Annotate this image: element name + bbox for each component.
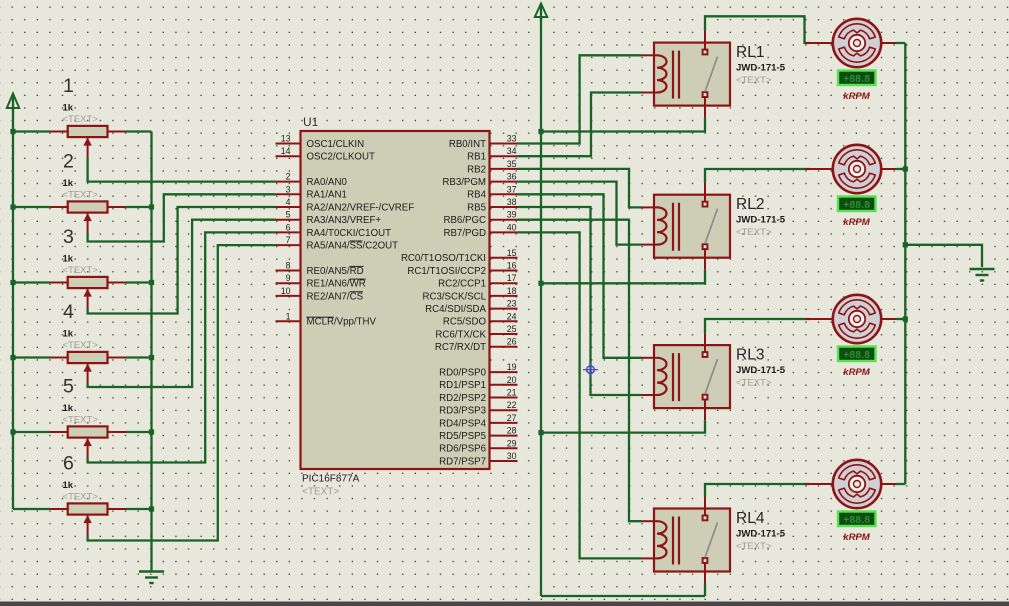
pin 17 stub [490, 282, 518, 284]
junction left rail pot 5 [10, 429, 15, 434]
pin 29 stub [490, 447, 518, 449]
svg-text:RD1/PSP1: RD1/PSP1 [439, 380, 486, 391]
ground (motor section) [970, 269, 995, 281]
junction left rail pot 4 [10, 355, 15, 360]
svg-text:RB1: RB1 [467, 152, 486, 163]
svg-text:39: 39 [507, 210, 517, 220]
wire motor 1 to rail [896, 42, 906, 44]
pin 33 stub [490, 143, 518, 145]
ground (left section) [139, 572, 164, 584]
wire pot 1 wiper to RA0 [88, 158, 276, 182]
svg-text:27: 27 [507, 413, 517, 423]
pin 20 stub [490, 384, 518, 386]
pot 5 left lead [50, 431, 69, 433]
display tachometer 2 [838, 197, 876, 212]
svg-text:36: 36 [507, 172, 517, 182]
svg-text:17: 17 [507, 273, 517, 283]
junction right rail pot 2 [149, 204, 154, 209]
svg-text:5: 5 [63, 376, 74, 398]
svg-text:9: 9 [286, 273, 291, 283]
relay RL1 switch top pin [704, 31, 706, 50]
pot 6 left lead [50, 508, 69, 510]
pin 9 stub [276, 282, 301, 284]
potentiometer 2 wiper arrow [83, 213, 91, 233]
svg-text:8: 8 [286, 261, 291, 271]
relay RL1 coil [642, 55, 667, 92]
wire RB4 to RL3 coil [518, 194, 642, 357]
svg-text:RA0/AN0: RA0/AN0 [307, 177, 348, 188]
svg-text:RB5: RB5 [467, 202, 486, 213]
svg-text:+88.8: +88.8 [843, 74, 870, 85]
pin 28 stub [490, 435, 518, 437]
wire RL2 switch bottom to rail [541, 270, 705, 284]
wire RB3 to RL2 coil [518, 182, 642, 245]
pin 25 stub [490, 333, 518, 335]
svg-text:1: 1 [63, 75, 74, 97]
pin 24 stub [490, 320, 518, 322]
wire pot 5 right lead to rail [126, 431, 152, 433]
svg-text:28: 28 [507, 426, 517, 436]
svg-text:40: 40 [507, 222, 517, 232]
svg-text:6: 6 [286, 222, 291, 232]
svg-text:<TEXT>: <TEXT> [63, 190, 99, 201]
pin 1 stub [276, 320, 301, 322]
svg-text:RC2/CCP1: RC2/CCP1 [438, 279, 486, 290]
svg-text:13: 13 [281, 134, 291, 144]
svg-text:3: 3 [286, 184, 291, 194]
svg-text:7: 7 [286, 235, 291, 245]
svg-text:1k: 1k [63, 480, 74, 491]
svg-text:JWD-171-5: JWD-171-5 [736, 215, 786, 226]
svg-text:1k: 1k [63, 103, 74, 114]
svg-text:<TEXT>: <TEXT> [736, 75, 772, 86]
motor M1 leads [805, 42, 896, 44]
potentiometer 2 body [68, 201, 108, 212]
svg-text:21: 21 [507, 388, 517, 398]
svg-text:RE1/AN6/WR: RE1/AN6/WR [307, 279, 366, 290]
svg-text:37: 37 [507, 184, 517, 194]
svg-text:<TEXT>: <TEXT> [302, 487, 339, 498]
pin 5 stub [276, 219, 301, 221]
junction rail RL2 return [538, 281, 543, 286]
pin 19 stub [490, 371, 518, 373]
relay RL2 lever [705, 209, 718, 244]
svg-text:OSC2/CLKOUT: OSC2/CLKOUT [307, 152, 375, 163]
pin 7 stub [276, 244, 301, 246]
junction right rail pot 5 [149, 429, 154, 434]
junction left rail pot 3 [10, 280, 15, 285]
wire right motor rail [904, 43, 906, 484]
svg-text:RD3/PSP3: RD3/PSP3 [439, 406, 486, 417]
svg-text:MCLR/Vpp/THV: MCLR/Vpp/THV [307, 317, 377, 328]
wire RL3 to motor 3 [705, 319, 810, 333]
relay RL2 coil [642, 207, 667, 244]
svg-text:2: 2 [63, 151, 74, 173]
pin 18 stub [490, 295, 518, 297]
wire RB7 to RL4 coil [518, 232, 642, 558]
svg-text:RB7/PGD: RB7/PGD [443, 228, 486, 239]
svg-text:22: 22 [507, 400, 517, 410]
svg-text:RC4/SDI/SDA: RC4/SDI/SDA [425, 304, 486, 315]
svg-text:10: 10 [281, 286, 291, 296]
junction rail RL3 return [538, 430, 543, 435]
relay RL1 body [654, 43, 730, 106]
svg-text:14: 14 [281, 146, 291, 156]
junction right rail pot 3 [149, 280, 154, 285]
svg-text:JWD-171-5: JWD-171-5 [736, 528, 786, 539]
svg-text:RC6/TX/CK: RC6/TX/CK [435, 329, 486, 340]
motor M2 leads [805, 168, 896, 170]
potentiometer 1 wiper arrow [83, 138, 91, 158]
svg-text:JWD-171-5: JWD-171-5 [736, 62, 786, 73]
pin 40 stub [490, 231, 518, 233]
svg-text:+88.8: +88.8 [843, 515, 870, 526]
wire pot 6 left lead (green) [13, 508, 50, 510]
svg-text:RE2/AN7/CS: RE2/AN7/CS [307, 291, 364, 302]
wire RB2 to RL2 coil [518, 169, 642, 208]
svg-text:3: 3 [63, 226, 74, 248]
junction right rail pot 4 [149, 355, 154, 360]
potentiometer 5 body [68, 426, 108, 437]
relay RL2 switch top pin [704, 183, 706, 202]
relay RL3 switch top pin [704, 333, 706, 352]
svg-text:RC7/RX/DT: RC7/RX/DT [435, 342, 486, 353]
pin 26 stub [490, 346, 518, 348]
wire pot 2 left lead (green) [13, 206, 50, 208]
svg-text:RC1/T1OSI/CCP2: RC1/T1OSI/CCP2 [407, 266, 486, 277]
svg-text:RA2/AN2/VREF-/CVREF: RA2/AN2/VREF-/CVREF [307, 202, 415, 213]
potentiometer 4 wiper arrow [83, 364, 91, 384]
pin 15 stub [490, 257, 518, 259]
svg-text:<TEXT>: <TEXT> [63, 340, 99, 351]
relay RL3 contacts [703, 352, 708, 399]
junction motor rail ground tap [903, 242, 908, 247]
relay RL4 lever [705, 523, 718, 558]
svg-text:RC5/SDO: RC5/SDO [443, 317, 487, 328]
op-amp U1 PIC16F877A chip body [301, 131, 490, 469]
svg-text:15: 15 [507, 248, 517, 258]
svg-text:RL3: RL3 [736, 347, 764, 364]
motor M4 leads [805, 483, 896, 485]
wire RL4 to motor 4 [705, 484, 810, 497]
svg-text:2: 2 [286, 172, 291, 182]
pin 22 stub [490, 409, 518, 411]
relay RL3 core [673, 353, 679, 401]
relay RL2 switch bottom pin [704, 249, 706, 270]
wire RB6 to RL4 coil [518, 220, 642, 522]
pin 23 stub [490, 308, 518, 310]
motor M2 body [833, 145, 881, 193]
motor M1 body [833, 19, 881, 67]
wire pot 2 wiper to RA1 [88, 194, 276, 241]
potentiometer 5 wiper arrow [83, 438, 91, 458]
svg-text:<TEXT>: <TEXT> [63, 114, 99, 125]
relay RL4 body [654, 509, 730, 572]
svg-text:19: 19 [507, 362, 517, 372]
svg-text:RD2/PSP2: RD2/PSP2 [439, 393, 486, 404]
wire RL1 switch bottom to rail [541, 118, 705, 132]
relay RL1 core [673, 51, 679, 99]
svg-text:RD4/PSP4: RD4/PSP4 [439, 418, 486, 429]
motor M3 leads [805, 318, 896, 320]
wire left VCC rail [12, 108, 14, 509]
wire pot 1 left lead (green) [13, 130, 50, 132]
potentiometer 3 body [68, 277, 108, 288]
junction motor rail m2 [903, 166, 908, 171]
svg-text:38: 38 [507, 197, 517, 207]
pin 38 stub [490, 206, 518, 208]
relay RL1 switch bottom pin [704, 97, 706, 118]
svg-text:RB2: RB2 [467, 164, 486, 175]
pin 14 stub [276, 155, 301, 157]
bottom bar [0, 602, 1009, 606]
svg-text:<TEXT>: <TEXT> [736, 378, 772, 389]
origin marker (blue crosshair) [583, 362, 598, 377]
svg-text:RB0/INT: RB0/INT [449, 139, 486, 150]
svg-text:20: 20 [507, 375, 517, 385]
svg-text:16: 16 [507, 261, 517, 271]
svg-text:23: 23 [507, 299, 517, 309]
svg-text:<TEXT>: <TEXT> [63, 415, 99, 426]
svg-text:PIC16F877A: PIC16F877A [302, 474, 360, 485]
relay RL1 lever [705, 57, 718, 92]
wire pot 3 wiper to RA2 [88, 207, 276, 314]
svg-text:+88.8: +88.8 [843, 200, 870, 211]
svg-text:RB4: RB4 [467, 190, 486, 201]
power symbol VCC left [7, 94, 19, 113]
pin 35 stub [490, 168, 518, 170]
pin 36 stub [490, 181, 518, 183]
wire pot 4 wiper to RA3 [88, 220, 276, 387]
potentiometer 6 body [68, 503, 108, 514]
pin 16 stub [490, 270, 518, 272]
pin 2 stub [276, 181, 301, 183]
svg-text:RL4: RL4 [736, 510, 765, 527]
pin 4 stub [276, 206, 301, 208]
relay RL4 switch top pin [704, 497, 706, 516]
svg-text:<TEXT>: <TEXT> [736, 227, 772, 238]
pin 21 stub [490, 397, 518, 399]
wire pot 6 wiper to RA5 [88, 245, 276, 540]
svg-text:JWD-171-5: JWD-171-5 [736, 365, 786, 376]
wire motor 3 to rail [896, 318, 906, 320]
relay RL4 switch bottom pin [704, 563, 706, 584]
svg-text:6: 6 [63, 453, 74, 475]
pin 27 stub [490, 422, 518, 424]
wire RL4 switch return bottom [541, 595, 705, 597]
wire motor 4 to rail [896, 483, 906, 485]
svg-text:kRPM: kRPM [843, 532, 870, 543]
wire RB0 to RL1 coil [518, 55, 642, 143]
junction left rail pot 2 [10, 204, 15, 209]
svg-text:26: 26 [507, 337, 517, 347]
svg-text:U1: U1 [303, 115, 319, 129]
power symbol VCC middle [535, 4, 547, 22]
pot 2 left lead [50, 206, 69, 208]
pin 34 stub [490, 155, 518, 157]
svg-text:+88.8: +88.8 [843, 350, 870, 361]
pin 6 stub [276, 231, 301, 233]
wire RL4 switch bottom to rail [704, 584, 706, 597]
svg-text:RD0/PSP0: RD0/PSP0 [439, 368, 486, 379]
wire pot 3 left lead (green) [13, 281, 50, 283]
svg-text:1k: 1k [63, 178, 74, 189]
potentiometer 6 wiper arrow [83, 515, 91, 535]
wire motor rail to ground [905, 245, 982, 267]
display tachometer 4 [838, 512, 876, 527]
svg-text:1k: 1k [63, 329, 74, 340]
wire RB1 to RL1 coil [518, 93, 642, 157]
svg-text:30: 30 [507, 451, 517, 461]
wire pot 5 left lead (green) [13, 431, 50, 433]
pot 1 right lead [107, 131, 127, 133]
pot 2 right lead [107, 206, 127, 208]
pin 30 stub [490, 460, 518, 462]
relay RL3 lever [705, 359, 718, 394]
junction motor rail m3 [903, 316, 908, 321]
svg-text:<TEXT>: <TEXT> [63, 265, 99, 276]
potentiometer 1 body [68, 126, 108, 137]
relay RL3 coil [642, 358, 667, 395]
svg-text:RC3/SCK/SCL: RC3/SCK/SCL [422, 291, 486, 302]
wire pot 4 left lead (green) [13, 356, 50, 358]
svg-text:5: 5 [286, 210, 291, 220]
svg-text:RB3/PGM: RB3/PGM [442, 177, 486, 188]
pot 3 right lead [107, 282, 127, 284]
pin 10 stub [276, 295, 301, 297]
pin 37 stub [490, 193, 518, 195]
svg-text:RA4/T0CKI/C1OUT: RA4/T0CKI/C1OUT [307, 228, 392, 239]
wire pot 5 wiper to RA4 [88, 232, 276, 462]
wire RL3 switch bottom to rail [541, 420, 705, 433]
pot 6 right lead [107, 508, 127, 510]
wire pot 4 right lead to rail [126, 356, 152, 358]
junction rail RL1 return [538, 129, 543, 134]
potentiometer 4 body [68, 352, 108, 363]
relay RL3 switch bottom pin [704, 400, 706, 421]
svg-text:24: 24 [507, 311, 517, 321]
motor M4 body [833, 460, 881, 508]
svg-text:kRPM: kRPM [843, 367, 870, 378]
svg-text:RC0/T1OSO/T1CKI: RC0/T1OSO/T1CKI [401, 253, 486, 264]
svg-text:34: 34 [507, 146, 517, 156]
pin 3 stub [276, 193, 301, 195]
svg-text:RA1/AN1: RA1/AN1 [307, 190, 347, 201]
wire pot 1 right lead to rail [126, 130, 152, 132]
svg-text:OSC1/CLKIN: OSC1/CLKIN [307, 139, 365, 150]
pot 5 right lead [107, 431, 127, 433]
pot 4 left lead [50, 357, 69, 359]
motor M3 body [833, 295, 881, 343]
svg-text:RL1: RL1 [736, 44, 764, 61]
svg-text:1: 1 [286, 311, 291, 321]
wire pot 3 right lead to rail [126, 281, 152, 283]
pin 8 stub [276, 270, 301, 272]
wire RL1 to motor 1 [705, 16, 810, 43]
wire RB5 to RL3 coil [518, 207, 642, 395]
relay RL2 core [673, 203, 679, 251]
svg-text:RD5/PSP5: RD5/PSP5 [439, 431, 486, 442]
relay RL1 contacts [703, 50, 708, 97]
svg-text:RA3/AN3/VREF+: RA3/AN3/VREF+ [307, 215, 382, 226]
svg-text:35: 35 [507, 159, 517, 169]
wire pot 6 right lead to rail [126, 508, 152, 510]
wire middle VCC rail [540, 17, 542, 596]
wire pot 2 right lead to rail [126, 206, 152, 208]
relay RL3 body [654, 345, 730, 408]
svg-text:RB6/PGC: RB6/PGC [443, 215, 486, 226]
relay RL4 coil [642, 521, 667, 558]
svg-text:RD7/PSP7: RD7/PSP7 [439, 456, 486, 467]
display tachometer 3 [838, 347, 876, 362]
svg-text:<TEXT>: <TEXT> [63, 492, 99, 503]
pin 39 stub [490, 219, 518, 221]
svg-text:<TEXT>: <TEXT> [736, 541, 772, 552]
svg-text:4: 4 [286, 197, 291, 207]
relay RL4 core [673, 517, 679, 565]
svg-text:18: 18 [507, 286, 517, 296]
relay RL4 contacts [703, 516, 708, 563]
svg-text:RD6/PSP6: RD6/PSP6 [439, 444, 486, 455]
svg-text:RA5/AN4/SS/C2OUT: RA5/AN4/SS/C2OUT [307, 241, 399, 252]
svg-text:1k: 1k [63, 254, 74, 265]
pot 3 left lead [50, 282, 69, 284]
svg-text:25: 25 [507, 324, 517, 334]
svg-text:4: 4 [63, 301, 74, 323]
pin 13 stub [276, 143, 301, 145]
junction right rail pot 6 [149, 506, 154, 511]
svg-text:RL2: RL2 [736, 196, 764, 213]
relay RL2 contacts [703, 202, 708, 249]
svg-text:1k: 1k [63, 403, 74, 414]
pot 1 left lead [50, 131, 69, 133]
svg-text:RE0/AN5/RD: RE0/AN5/RD [307, 266, 364, 277]
wire RL2 to motor 2 [705, 169, 810, 183]
svg-text:kRPM: kRPM [843, 91, 870, 102]
wire motor 2 to rail [896, 168, 906, 170]
potentiometer 3 wiper arrow [83, 289, 91, 309]
display tachometer 1 [838, 71, 876, 86]
svg-text:kRPM: kRPM [843, 217, 870, 228]
relay RL2 body [654, 195, 730, 258]
svg-text:29: 29 [507, 438, 517, 448]
svg-text:33: 33 [507, 134, 517, 144]
junction left rail pot 1 [10, 129, 15, 134]
pot 4 right lead [107, 357, 127, 359]
wire right rail to ground [150, 132, 152, 572]
